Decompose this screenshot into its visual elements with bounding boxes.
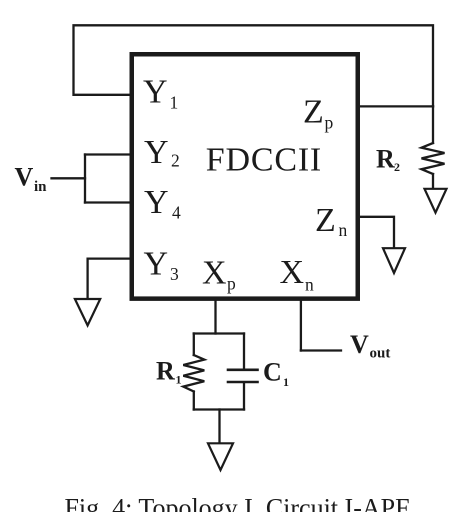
svg-text:2: 2 (171, 151, 180, 171)
svg-text:Y: Y (144, 184, 169, 221)
svg-text:in: in (34, 179, 47, 195)
wire RC tank ground stem (218, 410, 220, 444)
svg-text:4: 4 (172, 203, 181, 223)
svg-text:1: 1 (283, 375, 289, 389)
svg-text:Y: Y (144, 246, 169, 283)
svg-text:C: C (263, 358, 282, 387)
wire R1 branch bottom lead (193, 392, 195, 410)
svg-text:Y: Y (144, 134, 169, 171)
wire RC tank bottom bar (194, 408, 244, 410)
wire R2 top lead (432, 106, 434, 143)
resistor R1 zigzag (183, 355, 204, 392)
wire RC tank top bar (194, 332, 244, 334)
wire bracket to Y4 (85, 201, 131, 203)
svg-text:Y: Y (143, 74, 168, 111)
wire Vin bracket vertical (84, 155, 86, 203)
svg-text:1: 1 (170, 93, 179, 113)
svg-text:p: p (227, 274, 236, 294)
wire Y1 feedback loop (Y1 to top to Zp node) (74, 25, 434, 106)
wire Vin lead (52, 177, 86, 179)
wire R1 branch top lead (193, 334, 195, 356)
svg-text:2: 2 (394, 160, 400, 174)
wire Zn to ground (359, 217, 394, 248)
wire Xn lead down (300, 300, 302, 351)
resistor R2 zigzag (422, 143, 445, 174)
wire Xp lead down (214, 300, 216, 334)
svg-text:X: X (280, 254, 305, 291)
ground symbol (Zn) (383, 248, 405, 273)
wire R2 bottom lead (432, 174, 434, 189)
wire C1 branch top lead (243, 334, 245, 369)
ground symbol (Y3) (75, 299, 100, 325)
svg-text:n: n (339, 220, 348, 240)
capacitor C1 bottom plate (228, 381, 258, 384)
wire C1 branch bottom lead (243, 383, 245, 409)
svg-text:n: n (305, 275, 314, 295)
svg-text:Z: Z (315, 202, 336, 239)
wire bracket to Y2 (85, 153, 131, 155)
svg-text:3: 3 (170, 264, 179, 284)
capacitor C1 top plate (228, 368, 258, 371)
svg-text:V: V (15, 162, 34, 191)
svg-text:Z: Z (303, 94, 324, 131)
svg-text:1: 1 (176, 373, 182, 387)
wire Y3 to ground (88, 259, 131, 299)
svg-text:R: R (376, 145, 395, 174)
svg-text:out: out (370, 346, 391, 362)
svg-text:p: p (325, 113, 334, 133)
svg-text:V: V (350, 330, 369, 359)
svg-text:X: X (202, 254, 227, 291)
svg-text:Fig. 4: Topology I, Circuit I-: Fig. 4: Topology I, Circuit I-APF (64, 494, 409, 512)
svg-text:FDCCII: FDCCII (206, 141, 322, 178)
ground symbol (RC tank) (208, 443, 233, 470)
ground symbol (R2) (425, 189, 447, 213)
wire Zp to feedback node (359, 105, 433, 107)
FDCCII box U1 (132, 54, 358, 298)
wire Xn to Vout (301, 349, 341, 351)
svg-text:R: R (156, 357, 175, 386)
